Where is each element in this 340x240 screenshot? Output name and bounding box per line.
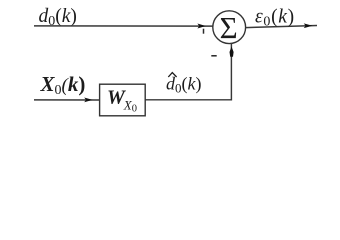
- svg-text:Σ: Σ: [220, 10, 238, 45]
- op: summing junction circle: [213, 11, 246, 44]
- arrowhead on X0 wire: [84, 98, 92, 103]
- svg-text:ε0(k): ε0(k): [255, 7, 295, 30]
- arrowhead on d0 wire: [197, 24, 205, 29]
- arrowhead on output wire: [304, 23, 313, 28]
- block W_X0 filter box: [100, 84, 146, 116]
- wire feedback vertical: [145, 43, 231, 99]
- wire d0 to summer: [34, 25, 213, 27]
- wire summer output: [246, 26, 317, 28]
- wire X0 input: [34, 99, 100, 101]
- minus sign at summer: [211, 55, 216, 57]
- svg-text:d0(k): d0(k): [166, 74, 202, 96]
- arrowhead up into summer: [230, 47, 234, 57]
- node dhat0 label: [168, 73, 176, 77]
- plus tick below d0 wire: [203, 29, 205, 34]
- svg-text:X0(k): X0(k): [40, 72, 86, 98]
